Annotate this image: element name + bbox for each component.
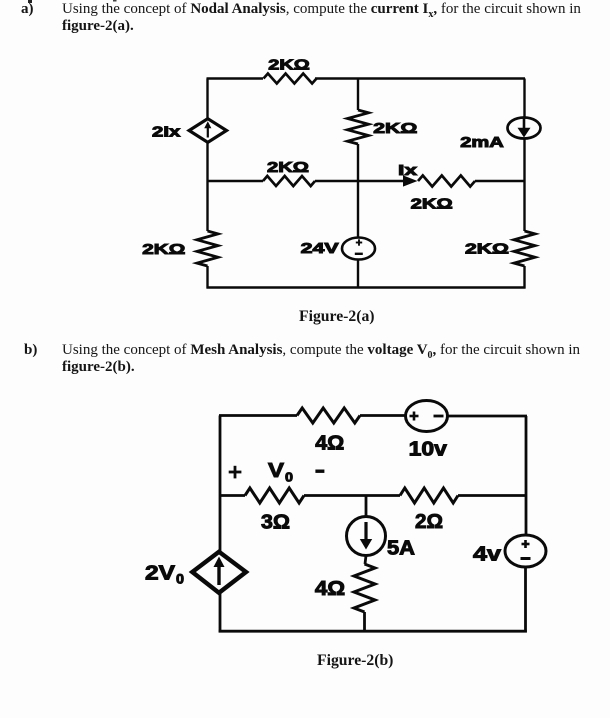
wire: fig-b top-right segment — [448, 415, 528, 418]
wire: fig-a bottom — [207, 286, 526, 288]
wire: fig-a top-left segment — [207, 77, 264, 79]
svg-text:4v: 4v — [473, 544, 502, 566]
resistor 2KΩ (fig-a left) — [142, 231, 218, 266]
voltage source 4v (fig-b) — [473, 535, 546, 567]
wire: fig-b left lower segment — [219, 593, 222, 633]
wire: fig-a left lower segment — [206, 266, 208, 289]
wire: fig-b 5A branch upper — [365, 496, 368, 518]
resistor 2Ω (fig-b) — [400, 488, 458, 533]
svg-text:3Ω: 3Ω — [261, 512, 290, 534]
voltage source 24V (fig-a) — [301, 238, 375, 260]
svg-text:2KΩ: 2KΩ — [373, 121, 418, 137]
svg-text:24V: 24V — [301, 241, 339, 257]
wire: fig-b left upper segment — [219, 416, 222, 553]
resistor 4Ω (fig-b vertical) — [315, 564, 375, 612]
wire: fig-a middle upper segment — [357, 79, 359, 111]
svg-text:2Ix: 2Ix — [152, 125, 180, 141]
wire: fig-b mid-right segment — [458, 494, 527, 497]
current arrow Ix (fig-a) — [358, 162, 418, 187]
wire: fig-b mid-left segment — [220, 494, 245, 497]
wire: fig-a right lower segment — [523, 266, 525, 289]
resistor 2KΩ (fig-a middle vertical) — [348, 110, 418, 144]
svg-text:4Ω: 4Ω — [315, 433, 344, 455]
wire: fig-b 5A branch middle — [365, 556, 366, 565]
svg-text:2KΩ: 2KΩ — [267, 160, 310, 176]
svg-text:Ix: Ix — [398, 162, 418, 179]
wire: fig-b 5A branch lower — [363, 612, 366, 631]
svg-text:0: 0 — [285, 470, 293, 485]
svg-text:2Ω: 2Ω — [415, 511, 443, 533]
svg-text:2mA: 2mA — [460, 135, 504, 151]
svg-text:2KΩ: 2KΩ — [142, 242, 186, 258]
dependent current source 2Vo (fig-b) — [145, 552, 246, 593]
dependent current source 2Ix (fig-a) — [152, 119, 226, 143]
wire: fig-b right upper segment — [525, 416, 528, 536]
wire: fig-a middle segment below 24V — [357, 260, 359, 289]
wire: fig-a mid-left segment — [208, 180, 264, 182]
svg-text:2V: 2V — [145, 563, 176, 585]
wire: fig-a left upper segment — [206, 79, 208, 120]
svg-text:V: V — [268, 460, 285, 482]
resistor 4Ω (fig-b top) — [297, 408, 360, 455]
wire: fig-a right upper segment — [523, 79, 525, 118]
wire: fig-a right middle segment — [523, 139, 525, 232]
resistor 2KΩ (fig-a right) — [465, 231, 535, 266]
scan remnant speck above a) — [28, 0, 32, 3]
current source 5A (fig-b) — [347, 517, 416, 560]
voltage source 10v (fig-b) — [406, 401, 448, 461]
wire: fig-a left middle segment — [206, 142, 208, 231]
wire: fig-b mid segment between 3Ω and 2Ω — [304, 494, 400, 497]
svg-text:5A: 5A — [387, 538, 415, 560]
resistor 2KΩ (fig-a Ix branch) — [411, 176, 475, 213]
svg-text:2KΩ: 2KΩ — [268, 58, 310, 74]
resistor 2KΩ (fig-a middle horizontal) — [263, 160, 315, 186]
svg-text:2KΩ: 2KΩ — [465, 242, 510, 258]
resistor 2KΩ (fig-a top) — [264, 58, 317, 84]
wire: fig-b bottom — [219, 630, 527, 633]
scan remnant speck top middle — [113, 0, 117, 2]
svg-text:4Ω: 4Ω — [315, 578, 345, 600]
wire: fig-b right lower segment — [524, 567, 527, 633]
current source 2mA (fig-a) — [460, 118, 540, 152]
wire: fig-a top-right segment — [315, 77, 525, 79]
svg-text:10v: 10v — [409, 439, 448, 461]
wire: fig-a mid segment between node and resistor — [315, 180, 358, 182]
resistor 3Ω (fig-b) with Vo polarity labels — [229, 460, 325, 534]
wire: fig-b top-left segment — [219, 414, 297, 417]
svg-text:2KΩ: 2KΩ — [411, 197, 454, 213]
wire: fig-a middle segment above 24V — [357, 144, 359, 238]
svg-text:0: 0 — [176, 572, 184, 587]
wire: fig-a mid-right segment — [475, 180, 525, 182]
wire: fig-b top segment to 10v — [360, 414, 406, 417]
